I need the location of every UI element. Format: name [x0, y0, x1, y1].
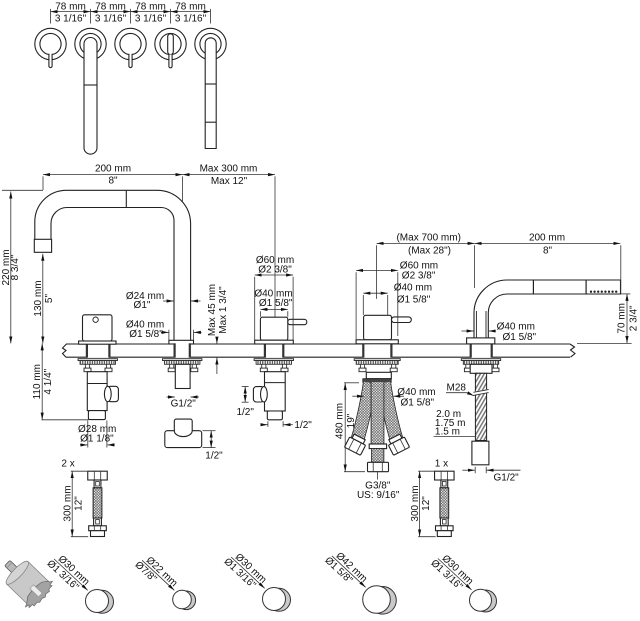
svg-text:200 mm: 200 mm	[529, 233, 565, 244]
svg-text:1/2": 1/2"	[294, 420, 312, 431]
svg-text:70 mm: 70 mm	[616, 303, 627, 334]
svg-text:4 1/4": 4 1/4"	[43, 368, 54, 394]
svg-text:Max 45 mm: Max 45 mm	[207, 284, 218, 336]
svg-text:Ø1 5/8": Ø1 5/8"	[401, 397, 435, 408]
svg-text:480 mm: 480 mm	[335, 403, 346, 439]
svg-text:Max 12": Max 12"	[211, 176, 248, 187]
svg-text:Ø1": Ø1"	[134, 300, 151, 311]
svg-text:1.5 m: 1.5 m	[435, 426, 460, 437]
svg-text:3 1/16": 3 1/16"	[175, 14, 207, 25]
svg-text:G1/2": G1/2"	[171, 399, 197, 410]
svg-text:8": 8"	[543, 246, 553, 257]
svg-text:12": 12"	[73, 496, 84, 511]
svg-text:(Max 28"): (Max 28")	[408, 246, 451, 257]
svg-text:8": 8"	[108, 176, 118, 187]
svg-text:5": 5"	[44, 294, 55, 304]
svg-text:1/2": 1/2"	[205, 450, 223, 461]
svg-text:3 1/16": 3 1/16"	[95, 14, 127, 25]
svg-text:2 x: 2 x	[61, 459, 74, 470]
svg-text:US: 9/16": US: 9/16"	[357, 490, 400, 501]
svg-text:12": 12"	[421, 496, 432, 511]
svg-text:Ø40 mm: Ø40 mm	[394, 283, 432, 294]
svg-text:110 mm: 110 mm	[32, 364, 43, 399]
svg-text:Max 1 3/4": Max 1 3/4"	[218, 286, 229, 334]
svg-text:Ø1 5/8": Ø1 5/8"	[397, 295, 431, 306]
svg-text:8 3/4": 8 3/4"	[10, 254, 21, 280]
svg-text:M28: M28	[447, 383, 467, 394]
svg-text:G1/2": G1/2"	[494, 472, 520, 483]
svg-text:3 1/16": 3 1/16"	[135, 14, 167, 25]
svg-text:200 mm: 200 mm	[95, 163, 131, 174]
svg-text:Max 300 mm: Max 300 mm	[200, 163, 258, 174]
svg-text:Ø1 5/8": Ø1 5/8"	[259, 298, 293, 309]
svg-text:78 mm: 78 mm	[55, 1, 86, 12]
svg-text:78 mm: 78 mm	[135, 1, 166, 12]
svg-text:Ø2 3/8": Ø2 3/8"	[258, 264, 292, 275]
svg-text:Ø2 3/8": Ø2 3/8"	[402, 271, 436, 282]
svg-text:130 mm: 130 mm	[33, 280, 44, 316]
svg-text:300 mm: 300 mm	[62, 485, 73, 521]
svg-text:Ø1 5/8": Ø1 5/8"	[503, 332, 537, 343]
svg-text:Ø1 1/8": Ø1 1/8"	[80, 433, 114, 444]
svg-text:78 mm: 78 mm	[95, 1, 126, 12]
svg-text:(Max 700 mm): (Max 700 mm)	[396, 233, 460, 244]
svg-text:1 x: 1 x	[435, 459, 448, 470]
svg-text:19": 19"	[346, 413, 357, 428]
svg-text:Ø1 5/8": Ø1 5/8"	[129, 329, 163, 340]
svg-text:Ø40 mm: Ø40 mm	[497, 321, 535, 332]
svg-text:2 3/4": 2 3/4"	[628, 305, 639, 331]
svg-text:1/2": 1/2"	[236, 407, 254, 418]
svg-text:300 mm: 300 mm	[410, 485, 421, 521]
svg-text:78 mm: 78 mm	[175, 1, 206, 12]
svg-text:3 1/16": 3 1/16"	[55, 14, 87, 25]
